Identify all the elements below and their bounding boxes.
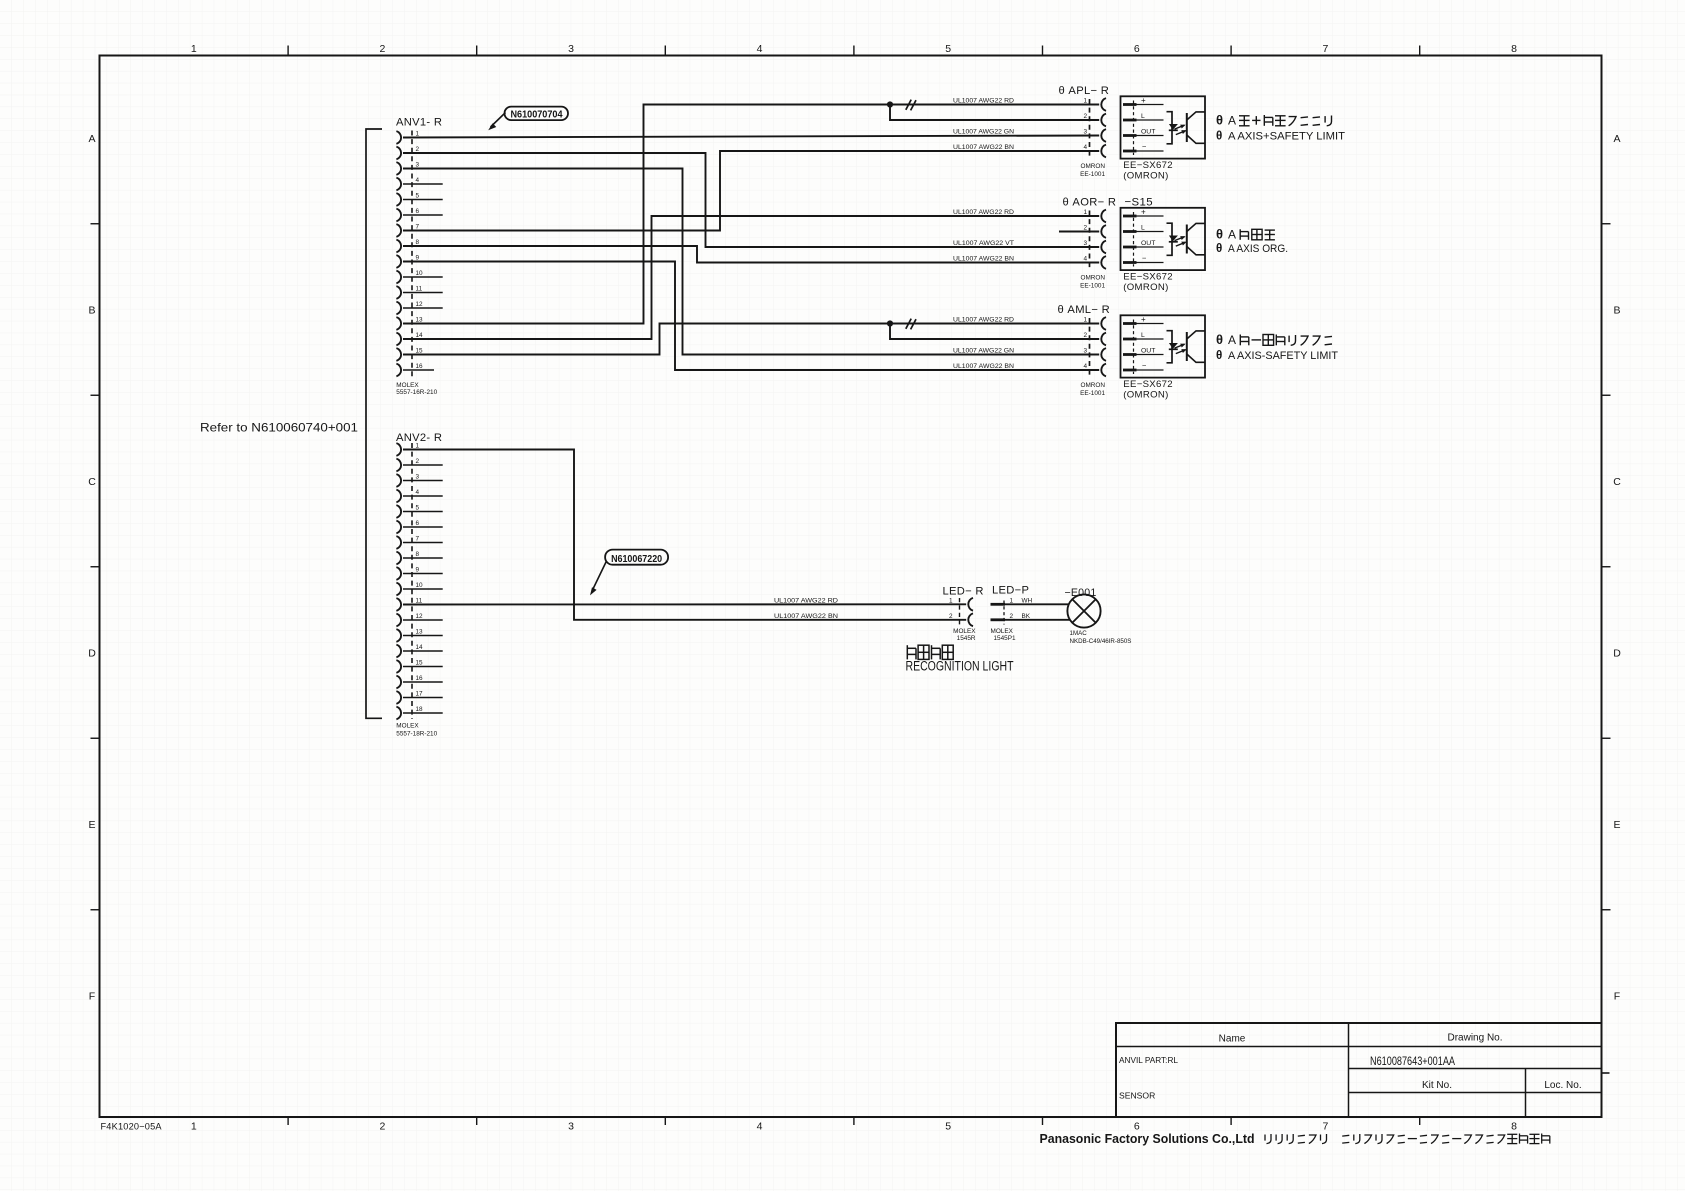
svg-text:N610087643+001AA: N610087643+001AA <box>1370 1054 1456 1068</box>
callout balloon N610070704 <box>488 107 568 131</box>
svg-text:UL1007 AWG22 BN: UL1007 AWG22 BN <box>774 613 838 620</box>
svg-text:SENSOR: SENSOR <box>1119 1091 1155 1101</box>
lamp -E001 recognition light (1MAC NKDB-C49/46IR-850S) <box>1065 587 1132 645</box>
connector ANV2-R (MOLEX 5557-18R-210) <box>396 432 442 738</box>
svg-text:L: L <box>1141 225 1145 232</box>
svg-text:2: 2 <box>1083 332 1087 339</box>
svg-text:OUT: OUT <box>1141 348 1155 355</box>
svg-text:12: 12 <box>416 613 424 620</box>
svg-text:+: + <box>1141 208 1146 217</box>
svg-text:MOLEX: MOLEX <box>991 628 1014 635</box>
company name Panasonic Factory Solutions <box>1040 1132 1550 1146</box>
svg-text:Panasonic Factory Solutions Co: Panasonic Factory Solutions Co.,Ltd <box>1040 1132 1255 1146</box>
svg-text:1545P1: 1545P1 <box>994 635 1016 642</box>
svg-text:12: 12 <box>416 301 424 308</box>
svg-text:4: 4 <box>416 177 420 184</box>
wire label UL1007 AWG22 VT (S15) <box>953 240 1014 247</box>
svg-text:A: A <box>88 133 95 145</box>
svg-text:(OMRON): (OMRON) <box>1123 170 1168 181</box>
svg-text:2: 2 <box>1083 225 1087 232</box>
svg-text:θ APL− R: θ APL− R <box>1059 85 1110 97</box>
svg-text:1: 1 <box>1083 98 1087 105</box>
svg-text:1: 1 <box>191 43 197 55</box>
wire ANV1-R pin8 to sensor S15 pin4 (UL1007 AWG22 BN) <box>403 246 1099 263</box>
svg-text:Name: Name <box>1219 1034 1246 1045</box>
connector θAML-R (OMRON EE-1001) <box>1058 304 1110 397</box>
ANV1-R unconnected pin stubs (pins 4,5,6,10,11,12,16) <box>403 184 443 370</box>
ANV1-R pin numbers 1-16 <box>416 131 424 371</box>
label θ A AXIS ORG. <box>1216 227 1288 256</box>
svg-text:A: A <box>1228 228 1236 242</box>
svg-text:A AXIS ORG.: A AXIS ORG. <box>1228 243 1288 255</box>
twist mark // on S14 RD wire <box>906 100 916 111</box>
svg-text:θ: θ <box>1216 242 1222 255</box>
svg-text:UL1007 AWG22 BN: UL1007 AWG22 BN <box>953 144 1014 151</box>
svg-text:θ: θ <box>1216 349 1222 362</box>
svg-text:(OMRON): (OMRON) <box>1123 389 1168 400</box>
svg-text:Kit No.: Kit No. <box>1422 1080 1452 1091</box>
svg-text:15: 15 <box>416 660 424 667</box>
svg-text:A AXIS-SAFETY LIMIT: A AXIS-SAFETY LIMIT <box>1228 350 1338 362</box>
junction dot on S14 RD wire <box>887 101 893 107</box>
svg-text:16: 16 <box>416 363 424 370</box>
svg-text:A: A <box>1228 114 1236 128</box>
svg-text:2: 2 <box>416 458 420 465</box>
svg-text:ANV1- R: ANV1- R <box>396 117 442 129</box>
svg-text:UL1007 AWG22 RD: UL1007 AWG22 RD <box>774 597 838 604</box>
svg-text:−: − <box>1142 253 1147 262</box>
svg-text:E: E <box>88 819 95 831</box>
svg-text:EE-1001: EE-1001 <box>1080 390 1105 397</box>
svg-text:4: 4 <box>1083 144 1087 151</box>
svg-text:θ AML− R: θ AML− R <box>1058 304 1110 316</box>
svg-text:Refer to N610060740+001: Refer to N610060740+001 <box>200 422 358 435</box>
wire ANV1-R pin13 to sensor S14 pin1 (UL1007 AWG22 RD) <box>403 105 1099 324</box>
svg-text:+: + <box>1141 315 1146 324</box>
svg-text:2: 2 <box>1083 113 1087 120</box>
svg-text:NKDB-C49/46IR-850S: NKDB-C49/46IR-850S <box>1070 638 1132 645</box>
wire label UL1007 AWG22 BN (S16) <box>953 363 1014 370</box>
connector ANV1-R (MOLEX 5557-16R-210) <box>396 117 442 396</box>
svg-text:L: L <box>1141 332 1145 339</box>
svg-text:2: 2 <box>379 1121 385 1133</box>
svg-text:3: 3 <box>568 1121 574 1133</box>
svg-text:L: L <box>1141 113 1145 120</box>
svg-text:A: A <box>1613 133 1620 145</box>
wire ANV1-R pin1 to sensor S14 pin3 (UL1007 AWG22 GN) <box>403 136 1099 138</box>
svg-text:6: 6 <box>416 520 420 527</box>
svg-text:θ: θ <box>1216 332 1223 347</box>
svg-text:MOLEX: MOLEX <box>953 628 976 635</box>
svg-text:1: 1 <box>191 1121 197 1133</box>
wire LED-P pin1 to lamp E001 (WH) <box>1005 603 1069 605</box>
wire ANV1-R pin2 to sensor S15 pin3 (UL1007 AWG22 VT) <box>403 153 1099 247</box>
svg-text:F: F <box>89 990 95 1002</box>
sensor S14 EE-SX672 (OMRON) photo-interrupter <box>1121 96 1206 181</box>
ANV2-R pin numbers 1-18 <box>416 443 424 714</box>
svg-text:UL1007 AWG22 RD: UL1007 AWG22 RD <box>953 98 1014 105</box>
wire junction drop to sensor S16 pin2 <box>890 324 1099 340</box>
wire label UL1007 AWG22 BN (S14) <box>953 144 1014 151</box>
svg-text:1MAC: 1MAC <box>1070 630 1088 637</box>
svg-text:θ AOR− R: θ AOR− R <box>1063 197 1117 209</box>
svg-text:−S15: −S15 <box>1125 196 1154 208</box>
svg-text:−: − <box>1142 142 1147 151</box>
svg-text:OMRON: OMRON <box>1081 274 1106 281</box>
svg-text:1: 1 <box>949 598 953 605</box>
svg-text:θ: θ <box>1216 113 1223 128</box>
svg-text:18: 18 <box>416 706 424 713</box>
svg-text:5: 5 <box>416 505 420 512</box>
svg-text:2: 2 <box>949 613 953 620</box>
stub wire into sensor S15 pin2 <box>1059 231 1099 233</box>
svg-text:ANV2- R: ANV2- R <box>396 432 442 444</box>
svg-text:4: 4 <box>757 43 763 55</box>
connector θAOR-R (OMRON EE-1001) <box>1063 197 1117 290</box>
svg-text:(OMRON): (OMRON) <box>1123 282 1168 293</box>
label θ A AXIS+SAFETY LIMIT <box>1216 113 1345 143</box>
svg-text:4: 4 <box>416 489 420 496</box>
svg-text:UL1007 AWG22 RD: UL1007 AWG22 RD <box>953 317 1014 324</box>
svg-text:6: 6 <box>1134 1121 1140 1133</box>
svg-text:16: 16 <box>416 675 424 682</box>
svg-text:8: 8 <box>1511 43 1517 55</box>
svg-text:6: 6 <box>416 208 420 215</box>
svg-text:MOLEX: MOLEX <box>396 723 419 730</box>
label 認識光源 RECOGNITION LIGHT <box>906 645 1014 673</box>
svg-text:8: 8 <box>1511 1121 1517 1133</box>
svg-text:−: − <box>1142 361 1147 370</box>
connector θAPL-R (OMRON EE-1001) <box>1059 85 1110 178</box>
wire label UL1007 AWG22 RD (S15) <box>953 209 1014 216</box>
svg-text:3: 3 <box>1083 129 1087 136</box>
svg-text:Drawing No.: Drawing No. <box>1447 1033 1502 1044</box>
svg-text:A AXIS+SAFETY LIMIT: A AXIS+SAFETY LIMIT <box>1228 131 1345 143</box>
svg-text:EE-1001: EE-1001 <box>1080 283 1105 290</box>
drawing format code F4K1020-05A <box>101 1121 163 1131</box>
wire LED-P pin2 to lamp E001 (BK) <box>1005 619 1070 621</box>
wire label UL1007 AWG22 BN (S15) <box>953 256 1014 263</box>
svg-text:1545R: 1545R <box>957 635 976 642</box>
svg-text:UL1007 AWG22 VT: UL1007 AWG22 VT <box>953 240 1014 247</box>
svg-text:UL1007 AWG22 GN: UL1007 AWG22 GN <box>953 348 1014 355</box>
svg-text:17: 17 <box>416 691 424 698</box>
wire ANV1-R pin3 to sensor S16 pin3 (UL1007 AWG22 GN) <box>403 169 1099 355</box>
svg-text:5: 5 <box>945 1121 951 1133</box>
svg-text:B: B <box>88 304 95 316</box>
svg-text:OUT: OUT <box>1141 240 1155 247</box>
connector LED-P (MOLEX 1545P1) <box>991 584 1033 642</box>
svg-text:C: C <box>88 476 96 488</box>
svg-text:4: 4 <box>757 1121 763 1133</box>
ANV2-R unconnected pin stubs (pins 2-10,12-18) <box>403 465 443 713</box>
svg-text:N610070704: N610070704 <box>511 109 563 120</box>
svg-text:5: 5 <box>945 43 951 55</box>
wire label UL1007 AWG22 GN (S16) <box>953 348 1014 355</box>
wire ANV2-R pin1 to LED-R pin2 (UL1007 AWG22 BN) <box>403 450 966 620</box>
svg-text:5: 5 <box>416 193 420 200</box>
svg-text:2: 2 <box>379 43 385 55</box>
svg-text:4: 4 <box>1083 256 1087 263</box>
svg-text:F4K1020−05A: F4K1020−05A <box>101 1121 163 1131</box>
svg-text:θ: θ <box>1216 227 1223 242</box>
svg-text:10: 10 <box>416 582 424 589</box>
wire label UL1007 AWG22 RD (S14) <box>953 98 1014 105</box>
svg-text:LED− R: LED− R <box>943 585 984 597</box>
svg-text:θ: θ <box>1216 130 1222 143</box>
svg-text:F: F <box>1614 990 1620 1002</box>
svg-text:UL1007 AWG22 GN: UL1007 AWG22 GN <box>953 129 1014 136</box>
svg-text:Loc. No.: Loc. No. <box>1544 1080 1581 1091</box>
cable bracket for ANV1-R / ANV2-R (refer note) <box>200 129 382 718</box>
svg-text:10: 10 <box>416 270 424 277</box>
svg-text:+: + <box>1141 96 1146 105</box>
svg-text:D: D <box>1613 647 1621 659</box>
svg-text:OUT: OUT <box>1141 129 1155 136</box>
svg-text:13: 13 <box>416 629 424 636</box>
svg-text:3: 3 <box>1083 240 1087 247</box>
svg-text:−E001: −E001 <box>1065 587 1097 599</box>
svg-text:LED−P: LED−P <box>992 584 1029 596</box>
svg-text:UL1007 AWG22 BN: UL1007 AWG22 BN <box>953 256 1014 263</box>
svg-text:14: 14 <box>416 644 424 651</box>
svg-text:E: E <box>1613 819 1620 831</box>
wire ANV1-R pin9 to sensor S16 pin4 (UL1007 AWG22 BN) <box>403 262 1099 371</box>
svg-text:OMRON: OMRON <box>1081 382 1106 389</box>
svg-text:4: 4 <box>1083 363 1087 370</box>
wire junction drop to sensor S14 pin2 <box>890 105 1099 121</box>
svg-text:EE-1001: EE-1001 <box>1080 171 1105 178</box>
svg-text:D: D <box>88 647 96 659</box>
svg-text:5557-16R-210: 5557-16R-210 <box>396 389 437 396</box>
callout balloon N610067220 <box>590 550 668 596</box>
wire ANV1-R pin14 to sensor S15 pin1 (UL1007 AWG22 RD) <box>403 216 1099 339</box>
wire ANV1-R pin7 to sensor S14 pin4 (UL1007 AWG22 BN) <box>403 151 1099 231</box>
svg-text:OMRON: OMRON <box>1081 163 1106 170</box>
svg-text:ANVIL PART:RL: ANVIL PART:RL <box>1119 1055 1178 1065</box>
svg-text:A: A <box>1228 333 1236 347</box>
svg-text:3: 3 <box>1083 348 1087 355</box>
wire ANV1-R pin15 to sensor S16 pin1 (UL1007 AWG22 RD) <box>403 324 1099 355</box>
connector LED-R (MOLEX 1545R) <box>943 585 984 642</box>
title block <box>1116 1023 1610 1117</box>
svg-text:8: 8 <box>416 551 420 558</box>
wire label UL1007 AWG22 RD (LED) <box>774 597 838 604</box>
svg-text:1: 1 <box>1083 209 1087 216</box>
svg-text:N610067220: N610067220 <box>611 554 662 565</box>
twist mark // on S16 RD wire <box>906 319 916 330</box>
svg-text:5557-18R-210: 5557-18R-210 <box>396 731 437 738</box>
wire label UL1007 AWG22 BN (LED) <box>774 613 838 620</box>
svg-text:9: 9 <box>416 567 420 574</box>
svg-text:RECOGNITION LIGHT: RECOGNITION LIGHT <box>906 658 1014 673</box>
svg-text:7: 7 <box>416 536 420 543</box>
svg-text:UL1007 AWG22 BN: UL1007 AWG22 BN <box>953 363 1014 370</box>
sensor S15 EE-SX672 (OMRON) photo-interrupter <box>1121 196 1206 292</box>
label θ A AXIS-SAFETY LIMIT <box>1216 332 1338 362</box>
svg-text:6: 6 <box>1134 43 1140 55</box>
svg-text:B: B <box>1613 304 1620 316</box>
junction dot on S16 RD wire <box>887 320 893 326</box>
svg-text:UL1007 AWG22 RD: UL1007 AWG22 RD <box>953 209 1014 216</box>
wire label UL1007 AWG22 RD (S16) <box>953 317 1014 324</box>
svg-text:11: 11 <box>416 286 423 293</box>
wire ANV2-R pin11 to LED-R pin1 (UL1007 AWG22 RD) <box>403 603 966 605</box>
svg-text:1: 1 <box>1083 317 1087 324</box>
wire label UL1007 AWG22 GN (S14) <box>953 129 1014 136</box>
svg-text:7: 7 <box>1322 43 1328 55</box>
sensor S16 EE-SX672 (OMRON) photo-interrupter <box>1121 315 1206 400</box>
svg-text:3: 3 <box>568 43 574 55</box>
svg-text:7: 7 <box>1322 1121 1328 1133</box>
svg-text:C: C <box>1613 476 1621 488</box>
svg-text:3: 3 <box>416 474 420 481</box>
